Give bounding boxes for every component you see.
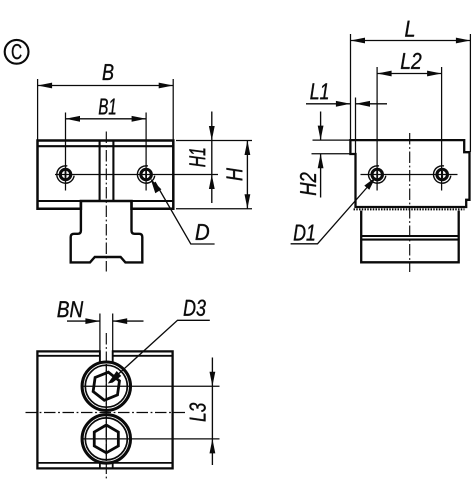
dimension BN arrow left (outside, pointing right) — [85, 318, 100, 324]
hole D left: thread arc — [57, 166, 74, 183]
dimension L1 extension line right — [355, 98, 357, 155]
dimension L extension line left — [350, 34, 352, 140]
dimension L3 line and tails — [211, 358, 213, 439]
dimension L arrow right — [456, 38, 471, 44]
hole D right: thread arc — [137, 166, 154, 183]
dimension BN arrow right (outside, pointing left) — [113, 318, 128, 324]
dimension B label — [103, 64, 114, 80]
front body outline — [38, 141, 174, 209]
dimension L3 arrow top (outside, pointing down) — [210, 372, 216, 387]
dimension H2 arrow bottom (outside, pointing up) — [318, 154, 324, 169]
front center line (dash-dot) — [105, 132, 107, 272]
screw bottom: inner circle — [85, 418, 127, 460]
base groove line 1 — [361, 235, 459, 237]
hole D left: ring — [60, 169, 71, 180]
dimension H line — [246, 141, 248, 209]
hole right: thread arc — [434, 166, 451, 183]
front body inner top line — [38, 145, 174, 147]
hole D left: socket slot — [65, 171, 67, 178]
view label C circle — [5, 40, 29, 64]
extension line top edge (for H1/H) — [176, 140, 252, 142]
dimension B arrow right — [159, 83, 174, 89]
base groove line 2 — [361, 239, 459, 241]
screw bottom: outer circle — [82, 415, 130, 463]
dimension H2 tails — [320, 112, 322, 141]
dimension L2 extension/center line right hole — [441, 67, 443, 191]
dimension L1 arrow right (outside, pointing left) — [356, 101, 371, 107]
hole D1 left: ring — [372, 169, 383, 180]
dimension H1 label (rotated) — [189, 149, 205, 167]
dimension BN tails — [67, 320, 100, 322]
dimension B1 arrow right — [132, 116, 147, 122]
dimension L2 label — [401, 53, 422, 69]
dimension L1 tails — [306, 103, 350, 105]
leader D1 label — [294, 225, 315, 241]
hole right: ring — [437, 169, 448, 180]
dimension BN extension/slot line left — [99, 314, 101, 352]
hole right: socket slot — [441, 171, 443, 178]
dimension H1 line and tails — [211, 112, 213, 175]
leader D3 arrow — [108, 371, 121, 384]
dimension B1 arrow left — [66, 116, 81, 122]
bottom view slot notch verticals — [99, 463, 101, 469]
dimension B line — [38, 85, 174, 87]
leader D line — [155, 182, 215, 244]
serration line (dotted) — [354, 208, 465, 210]
front slot right edge — [112, 141, 114, 202]
leader D3 line — [114, 320, 210, 378]
leader D label — [196, 224, 210, 240]
dimension L3 arrow bottom (outside, pointing up) — [210, 439, 216, 454]
dimension B extension line left — [37, 79, 39, 140]
dimension H2 extension line top — [313, 139, 353, 141]
dimension L2 line — [377, 73, 442, 75]
hole D1 left: thread arc — [369, 166, 386, 183]
dimension L3 label (rotated) — [189, 403, 205, 422]
front body inner bottom line — [38, 200, 174, 202]
bottom view inner top line — [37, 355, 172, 357]
tenon outline — [71, 201, 143, 262]
side center line (dash-dot) — [409, 133, 411, 272]
leader D3 label — [184, 300, 206, 316]
dimension B1 extension/center line left hole — [65, 113, 67, 191]
leader D1 arrow — [364, 177, 376, 190]
dimension L1 label — [310, 83, 328, 99]
dimension L2 arrow right — [427, 71, 442, 77]
dimension L1 arrow left (outside, pointing right) — [336, 101, 351, 107]
dimension H label (rotated) — [226, 168, 242, 180]
dimension BN label — [57, 301, 83, 317]
view label C text — [12, 44, 22, 59]
bottom view horizontal center line (dash-dot) — [26, 412, 188, 414]
leader D arrow — [151, 179, 162, 194]
front hole center row line — [55, 174, 218, 176]
dimension H arrow bottom (inside, pointing down) — [245, 194, 251, 209]
bottom view body outline — [37, 351, 172, 468]
dimension B extension line right — [172, 79, 174, 140]
bottom view inner bottom line — [37, 462, 172, 464]
dimension BN extension/slot line right — [112, 314, 114, 352]
front slot left edge — [99, 141, 101, 202]
dimension L line — [351, 40, 471, 42]
screw bottom: hex socket — [94, 425, 118, 453]
dimension H arrow top (inside, pointing up) — [245, 141, 251, 156]
dimension L extension line right — [469, 34, 471, 152]
side body outline — [350, 140, 469, 207]
leader D1 line — [291, 184, 371, 244]
screw crosshair verticals (solid) — [105, 364, 107, 409]
dimension H1 arrow bottom (outside, pointing up) — [209, 175, 215, 190]
dimension H2 label (rotated) — [300, 173, 316, 196]
side hole center row line — [361, 174, 458, 176]
dimension H2 arrow top (outside, pointing down) — [318, 126, 324, 141]
dimension L2 extension/center line left hole — [376, 67, 378, 191]
screw D3 top: outer circle — [82, 362, 130, 410]
hole D right: socket slot — [145, 171, 147, 178]
hole D1 left: socket slot — [376, 171, 378, 178]
dimension L3 extension line bottom (circle 2 center) — [81, 438, 220, 440]
dimension L3 extension line top (circle 1 center) — [81, 385, 220, 387]
extension line bottom edge (for H) — [176, 208, 252, 210]
bottom view vertical center line (dash-dot) — [105, 333, 107, 479]
screw D3 top: hex socket — [93, 372, 119, 400]
base block — [361, 211, 459, 263]
dimension H1 arrow top (outside, pointing down) — [209, 126, 215, 141]
dimension H2 extension line bottom — [312, 153, 353, 155]
hole D right: ring — [141, 169, 152, 180]
dimension L2 arrow left — [377, 71, 392, 77]
screw D3 top: inner circle — [85, 365, 127, 407]
dimension B1 label — [99, 99, 116, 115]
dimension B1 line — [66, 118, 147, 120]
dimension L label — [405, 21, 414, 37]
dimension B arrow left — [38, 83, 53, 89]
dimension L arrow left — [351, 38, 366, 44]
dimension B1 extension/center line right hole — [145, 113, 147, 191]
